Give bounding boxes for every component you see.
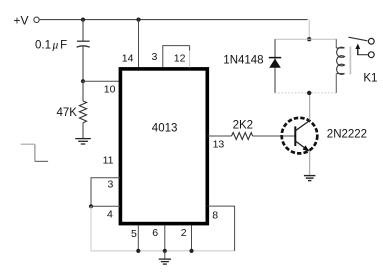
ground below pin 6	[164, 251, 166, 259]
svg-text:3: 3	[108, 179, 114, 191]
svg-text:3: 3	[152, 51, 158, 63]
relay contact bottom	[368, 52, 374, 58]
svg-text:8: 8	[212, 210, 218, 222]
relay K1 coil	[335, 39, 337, 48]
node junction pins 3-4	[89, 204, 93, 208]
wire pin 2 drop	[191, 225, 193, 251]
svg-text:2K2: 2K2	[233, 119, 253, 131]
wire emitter down	[309, 152, 311, 176]
wire pin 4 left	[91, 205, 120, 207]
terminal +V	[34, 17, 39, 22]
wire pin 12 drop	[189, 46, 191, 51]
wire pins34 down to ground rail	[90, 206, 92, 251]
svg-text:2: 2	[181, 227, 187, 239]
wire top +V rail	[39, 19, 307, 21]
wire pin 13	[208, 135, 232, 137]
node junction bottom relay	[307, 91, 311, 95]
node junction pin5 rail	[136, 249, 140, 253]
transistor Q1 2N2222	[282, 118, 318, 154]
wire diode branch	[274, 39, 276, 93]
diode D1 1N4148	[269, 57, 281, 59]
svg-text:10: 10	[104, 84, 116, 96]
input step waveform symbol	[21, 144, 48, 161]
wire junction to pin 10	[83, 80, 120, 82]
svg-text:47K: 47K	[57, 107, 78, 119]
wire C1 to junction	[82, 47, 84, 82]
wire diode-coil bottom link	[275, 92, 336, 94]
svg-text:11: 11	[103, 154, 114, 166]
node junction pin6 rail	[163, 249, 167, 253]
svg-text:13: 13	[213, 139, 225, 151]
wire pin 3 to pin 12 loop	[163, 46, 190, 68]
ground below 47K	[75, 139, 91, 144]
wire pin 6 drop	[164, 225, 166, 251]
wire diode-coil top link	[275, 38, 336, 40]
resistor R 47K	[79, 101, 86, 123]
wire +V to C1	[82, 20, 84, 41]
svg-text:1N4148: 1N4148	[223, 54, 263, 66]
wire junction to R1	[82, 81, 84, 101]
node junction pin10	[81, 79, 85, 83]
svg-text:+V: +V	[14, 14, 29, 28]
svg-text:2N2222: 2N2222	[327, 129, 367, 141]
svg-text:5: 5	[131, 228, 137, 240]
capacitor C 0.1uF	[77, 40, 90, 42]
svg-text:6: 6	[152, 227, 158, 239]
svg-text:K1: K1	[363, 72, 377, 84]
wire pin 3 left	[91, 178, 120, 207]
wire bottom ground rail	[91, 250, 235, 252]
wire contact stub	[357, 54, 368, 56]
wire R2 to base	[253, 135, 296, 137]
node junction top relay	[307, 37, 311, 41]
wire +V rail drop right	[308, 20, 310, 40]
svg-text:14: 14	[122, 53, 134, 65]
svg-text:4: 4	[107, 208, 113, 220]
svg-text:12: 12	[174, 52, 186, 64]
wire pin 5 drop	[137, 225, 139, 251]
actuate arrow	[357, 48, 359, 55]
node junction pin14 top	[136, 18, 140, 22]
svg-text:4013: 4013	[152, 123, 178, 135]
IC U1 4013 body	[120, 69, 207, 224]
ground below Q1	[304, 176, 316, 181]
wire collector up	[309, 93, 311, 120]
relay core line	[349, 47, 351, 75]
resistor R 2K2	[232, 133, 253, 140]
node junction pin2 rail	[189, 249, 193, 253]
wire pin 14 to +V rail	[138, 20, 140, 68]
relay switch arm	[348, 37, 367, 41]
relay contact top	[368, 38, 374, 44]
wire pin 8 loop	[208, 206, 235, 251]
wire R1 to ground	[82, 123, 84, 139]
node junction C1 top	[81, 18, 85, 22]
